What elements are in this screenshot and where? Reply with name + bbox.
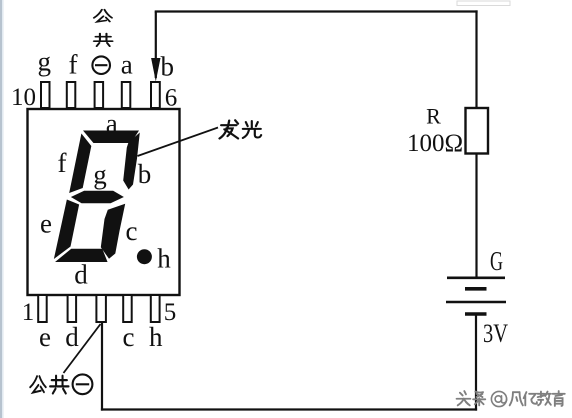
pin 9 (f) top <box>67 82 76 108</box>
svg-text:R: R <box>426 104 441 129</box>
short plate 2 <box>465 312 487 316</box>
svg-text:f: f <box>69 49 78 79</box>
wire bottom horizontal <box>101 408 477 410</box>
wire right vertical to resistor <box>475 10 477 108</box>
tou <box>457 391 471 405</box>
svg-text:g: g <box>37 47 51 77</box>
jiao <box>538 392 551 406</box>
battery G <box>446 278 506 314</box>
decimal point h <box>137 249 152 264</box>
pin 1 (e) bottom <box>38 295 47 322</box>
long plate 1 <box>447 276 505 279</box>
at sign <box>491 391 506 406</box>
svg-text:d: d <box>65 322 79 352</box>
svg-text:3V: 3V <box>483 319 508 348</box>
wire vertical from bottom common pin <box>101 322 103 411</box>
gong1 公 <box>94 10 112 22</box>
leader line to segment b <box>138 128 219 157</box>
yi <box>524 392 537 405</box>
resistor R body <box>466 108 489 154</box>
short plate 1 <box>465 287 487 291</box>
svg-text:d: d <box>74 260 88 290</box>
pin 6 (b) top <box>151 82 160 108</box>
svg-text:c: c <box>123 322 135 352</box>
svg-text:5: 5 <box>164 299 177 326</box>
segment e <box>54 200 80 260</box>
svg-text:G: G <box>490 246 503 276</box>
minus symbol bottom common <box>73 374 93 394</box>
svg-text:b: b <box>138 159 152 189</box>
gong1 公 <box>30 376 46 392</box>
segment b (image space) <box>123 133 140 190</box>
svg-text:e: e <box>40 209 52 239</box>
scan edge blue strip <box>0 0 2 418</box>
wire battery to bottom <box>475 314 477 411</box>
发光 annotation text <box>220 120 262 138</box>
fan <box>510 392 523 405</box>
svg-text:a: a <box>106 108 118 138</box>
svg-text:a: a <box>121 49 133 79</box>
wire top horizontal <box>155 10 478 12</box>
segment f <box>69 134 94 194</box>
segment d <box>55 249 110 262</box>
公共 top label (hand-drawn glyphs) <box>94 10 113 47</box>
fa 发 <box>220 120 239 138</box>
segment a <box>80 131 139 144</box>
pin 2 (d) bottom <box>68 295 77 322</box>
svg-text:10: 10 <box>11 84 36 111</box>
segment c (image space) <box>101 204 125 259</box>
segment g <box>70 191 126 204</box>
公共 bottom label <box>30 376 68 394</box>
svg-text:100Ω: 100Ω <box>407 130 463 157</box>
leader line common bottom <box>64 324 101 373</box>
gong4 共 <box>94 34 113 47</box>
wire resistor to battery <box>475 154 477 279</box>
svg-text:6: 6 <box>165 85 178 112</box>
long plate 2 <box>446 301 506 304</box>
tiao <box>473 392 485 406</box>
display package outline <box>28 109 180 295</box>
svg-text:1: 1 <box>22 299 35 326</box>
minus symbol top common <box>92 56 110 74</box>
guang 光 <box>243 121 261 138</box>
pin 5 (h) bottom <box>151 295 160 322</box>
svg-text:h: h <box>157 244 171 274</box>
svg-text:e: e <box>39 322 51 352</box>
wire vertical into pin b arrow <box>155 12 157 79</box>
svg-text:f: f <box>58 148 67 178</box>
7-segment digit <box>53 131 139 263</box>
pin 4 (c) bottom <box>123 295 132 322</box>
faint cropped watermark box top right <box>457 1 510 6</box>
yu <box>553 391 565 406</box>
svg-text:h: h <box>149 322 163 352</box>
watermark toutiao fanyi education <box>457 391 565 407</box>
gong4 共 <box>50 376 68 394</box>
pin 8 (common) top <box>95 82 104 108</box>
svg-text:g: g <box>93 160 107 190</box>
pin 10 (g) top <box>41 82 50 108</box>
pin 7 (a) top <box>122 82 131 108</box>
svg-text:b: b <box>161 52 175 82</box>
svg-text:c: c <box>126 216 138 246</box>
arrow head into pin b <box>151 58 160 82</box>
pin 3 (common) bottom <box>96 295 106 322</box>
